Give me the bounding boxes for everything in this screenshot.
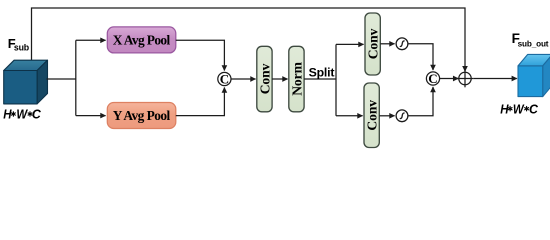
wire C1 to Conv <box>231 78 256 80</box>
label H*W*C (input) <box>3 107 41 122</box>
wire Y Avg Pool to concat C1 <box>176 88 225 116</box>
wire X Avg Pool to concat C1 <box>176 40 225 70</box>
svg-text:C: C <box>529 102 539 116</box>
wire branch vertical <box>75 40 77 115</box>
svg-text:C: C <box>428 71 437 86</box>
svg-text:X Avg Pool: X Avg Pool <box>113 33 171 48</box>
svg-text:Split: Split <box>309 65 335 79</box>
X Avg Pool box <box>107 27 176 53</box>
wire Conv to Norm <box>272 78 287 80</box>
wire top Conv to sigmoid <box>380 43 394 45</box>
wire bottom Conv to sigmoid <box>379 115 394 117</box>
wire into top Conv <box>336 43 364 45</box>
conv box 1 <box>257 46 272 112</box>
sigmoid node top <box>396 38 408 50</box>
Y Avg Pool box <box>107 103 176 129</box>
concat node C2 <box>426 72 439 85</box>
svg-text:C: C <box>220 72 229 87</box>
wire add to output cube <box>474 78 517 80</box>
sigmoid node bottom <box>396 110 408 122</box>
wire into bottom Conv <box>336 115 363 117</box>
concat node C1 <box>218 72 231 85</box>
svg-text:H: H <box>3 107 12 122</box>
svg-text:C: C <box>32 107 42 121</box>
svg-text:Conv: Conv <box>366 28 381 59</box>
wire sigmoid top to concat C2 <box>408 44 433 70</box>
wire sigmoid bottom to concat C2 <box>408 87 433 116</box>
wire cube to branch junction <box>47 78 76 80</box>
input cube Fsub <box>4 60 48 104</box>
svg-text:Conv: Conv <box>365 100 380 131</box>
add node (circle plus) <box>459 72 471 84</box>
conv box bottom branch <box>364 83 379 148</box>
output cube Fsub_out <box>518 54 550 96</box>
svg-text:W: W <box>513 102 525 117</box>
wire split vertical <box>335 44 337 115</box>
svg-text:W: W <box>16 107 28 122</box>
svg-text:Conv: Conv <box>257 63 272 94</box>
norm box <box>289 46 304 112</box>
wire C2 to add <box>440 78 459 80</box>
wire skip connection (top) <box>32 8 466 71</box>
conv box top branch <box>365 13 380 75</box>
svg-text:Y Avg Pool: Y Avg Pool <box>113 108 171 123</box>
wire into Y Avg Pool <box>76 115 106 117</box>
label H*W*C (output) <box>500 102 539 117</box>
wire Norm to split junction <box>304 78 336 80</box>
wire into X Avg Pool <box>76 39 106 41</box>
svg-text:Norm: Norm <box>289 61 304 95</box>
